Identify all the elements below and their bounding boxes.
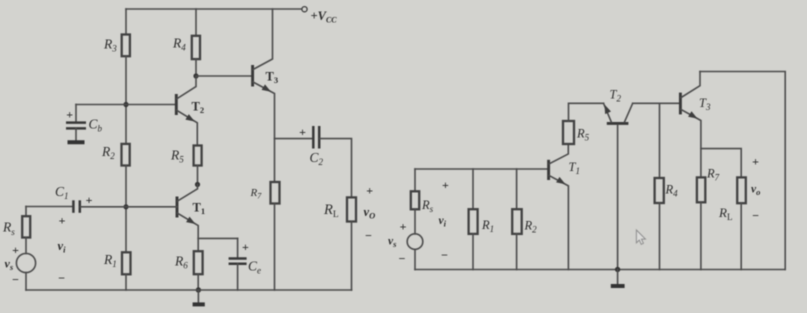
resistor R6 [194, 251, 203, 274]
svg-text:vs: vs [5, 257, 14, 273]
wire bottom ground rail right [415, 269, 785, 271]
wire R1 to ground rail [125, 274, 127, 290]
svg-text:vs: vs [388, 236, 397, 250]
svg-text:−: − [441, 248, 448, 262]
resistor Rs [22, 216, 30, 237]
svg-text:vi: vi [58, 239, 67, 255]
svg-text:+: + [366, 184, 373, 198]
wire Rs to source [25, 238, 27, 254]
svg-text:T1: T1 [569, 160, 580, 176]
terminal +Vcc circle [302, 7, 307, 12]
svg-text:RL: RL [323, 202, 339, 220]
wire input top rail [415, 168, 549, 170]
source vs circle [16, 253, 35, 272]
ground symbol left circuit [197, 290, 199, 303]
wire C1 to T1 base node [80, 206, 126, 208]
transistor T3 right [680, 72, 711, 178]
wire T3 collector to right edge [700, 72, 785, 270]
wire R4 column [195, 9, 197, 36]
ground symbol right circuit [617, 270, 619, 284]
svg-text:Cb: Cb [89, 117, 103, 134]
svg-text:vi: vi [439, 215, 447, 229]
wire R5 to T1 collector node [197, 166, 199, 185]
svg-text:vO: vO [364, 205, 376, 221]
wire source column top [25, 207, 27, 217]
wire R7 to ground rail [274, 204, 276, 291]
svg-text:+: + [86, 193, 93, 207]
svg-text:R1: R1 [103, 252, 117, 269]
mouse cursor [636, 230, 645, 244]
svg-text:+: + [66, 107, 73, 121]
wire R4 to node [195, 59, 197, 76]
wire R5 up to T2 emitter [569, 103, 604, 121]
ground under Cb [68, 140, 85, 144]
wire T2 collector to T3 base [633, 102, 681, 104]
wire top supply rail [126, 8, 302, 10]
svg-text:−: − [365, 229, 372, 243]
svg-text:R5: R5 [170, 148, 184, 165]
svg-text:vo: vo [751, 184, 760, 198]
wire source to ground rail [25, 273, 27, 290]
transistor T3 [253, 9, 278, 182]
svg-text:+VCC: +VCC [311, 9, 338, 25]
wire Cb to T2 base node [76, 104, 126, 106]
svg-text:+: + [12, 243, 19, 257]
svg-text:+: + [752, 155, 759, 169]
svg-text:−: − [752, 209, 759, 223]
wire emitter branch to C2 [275, 138, 313, 140]
svg-text:R7: R7 [706, 167, 720, 183]
wire T3 emitter branch to RL [701, 149, 741, 178]
svg-text:−: − [399, 252, 406, 266]
svg-text:T3: T3 [266, 70, 279, 86]
svg-text:+: + [242, 240, 249, 254]
capacitor Ce [229, 238, 261, 290]
transistor T2 right (common base, rotated) [604, 88, 633, 270]
svg-text:C2: C2 [310, 150, 324, 167]
transistor T2 [176, 77, 204, 146]
svg-text:R4: R4 [172, 36, 186, 53]
wire R6 to ground rail [197, 274, 199, 290]
transistor T1 [177, 185, 205, 239]
svg-text:Rs: Rs [2, 220, 15, 238]
resistor RL right [737, 177, 746, 203]
source vs circle right [407, 234, 423, 250]
svg-text:−: − [58, 271, 65, 285]
svg-text:R6: R6 [174, 254, 188, 271]
svg-text:R5: R5 [576, 127, 590, 143]
svg-text:RL: RL [718, 205, 732, 222]
wire source to ground rail [414, 249, 416, 269]
svg-text:T2: T2 [192, 100, 205, 116]
wire T1 emitter to Ce branch [198, 237, 237, 239]
svg-text:R7: R7 [250, 187, 263, 201]
svg-text:R4: R4 [665, 183, 679, 199]
svg-text:R1: R1 [481, 218, 494, 234]
svg-text:+: + [400, 219, 407, 233]
resistor R1 right with column [472, 169, 474, 209]
wire R7 to ground rail [700, 202, 702, 269]
capacitor C2 [299, 125, 323, 167]
node base of T1 (junction dot) [123, 204, 128, 209]
node T2 collector / T3 base (junction dot) [193, 73, 198, 78]
resistor R4 right with column [659, 103, 661, 178]
svg-text:Ce: Ce [248, 259, 261, 276]
node ground junction right (dot) [615, 267, 620, 272]
svg-text:+: + [59, 214, 66, 228]
resistor R1 [122, 252, 131, 274]
resistor R7 right [697, 177, 705, 202]
svg-text:T1: T1 [193, 201, 206, 217]
resistor Rs right [411, 191, 419, 209]
svg-text:+: + [299, 125, 306, 139]
node T1 collector (junction dot) [195, 182, 200, 187]
svg-text:T2: T2 [610, 88, 622, 104]
wire RL to ground rail [740, 203, 742, 269]
svg-text:R3: R3 [103, 37, 117, 54]
node base of T2 (junction dot) [123, 102, 128, 107]
resistor R5 right [563, 121, 574, 144]
svg-text:+: + [442, 178, 449, 192]
wire R3 to node [125, 56, 127, 144]
wire R2 to node [125, 166, 127, 253]
capacitor Cb [66, 105, 103, 141]
svg-text:C1: C1 [55, 184, 69, 201]
svg-text:R2: R2 [524, 219, 538, 235]
wire node to T3 base [196, 75, 252, 77]
wire emitter to R6 [197, 238, 199, 251]
capacitor C1 [55, 184, 93, 213]
wire C2 to RL column [320, 139, 352, 198]
wire RL to ground rail [351, 222, 353, 291]
wire to C1 [26, 206, 73, 208]
resistor R3 [122, 35, 130, 57]
wire T2 base [126, 104, 176, 106]
wire T1 base [126, 206, 177, 208]
wire source column [414, 169, 416, 191]
transistor T1 right [549, 144, 580, 270]
wire bottom ground rail [26, 289, 352, 291]
svg-text:Rs: Rs [421, 198, 434, 214]
resistor R4 [192, 36, 200, 59]
resistor R2 [122, 144, 130, 166]
resistor R7 [271, 182, 280, 204]
resistor RL [347, 197, 356, 221]
svg-text:T3: T3 [699, 96, 711, 112]
svg-text:R2: R2 [101, 144, 115, 161]
svg-text:−: − [12, 273, 19, 287]
node ground junction (dot) [196, 287, 201, 292]
wire Rs to source [414, 209, 416, 234]
resistor R5 [194, 146, 202, 166]
resistor R2 right with column [516, 169, 518, 209]
wire left bias column top [125, 9, 127, 35]
